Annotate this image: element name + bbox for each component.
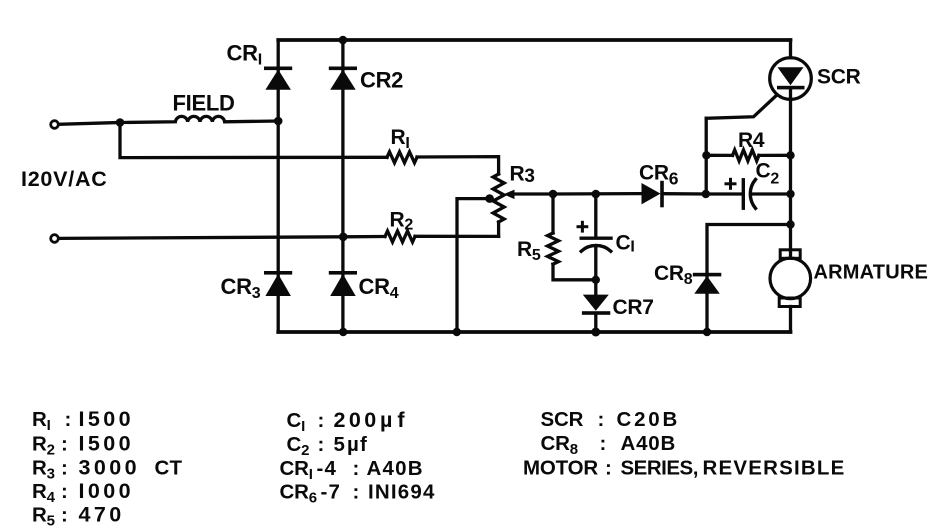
diode CR6 — [642, 181, 664, 208]
node top-rail/CR2 junction — [339, 36, 348, 45]
wire CR1/CR3 vertical — [277, 40, 280, 332]
resistor R2 — [385, 231, 415, 242]
wire wiper line to CR6 — [553, 192, 642, 196]
node B junction FIELD/CR1 — [274, 117, 283, 126]
wire center tap to bottom rail — [457, 199, 490, 332]
terminal bottom AC input — [51, 235, 59, 243]
svg-text:R4: R4 — [738, 129, 765, 152]
motor ARMATURE — [770, 250, 811, 332]
resistor R5 — [548, 194, 596, 280]
resistor R4 — [706, 150, 790, 161]
wire R1 to R3 top — [417, 157, 499, 174]
node A junction — [116, 118, 125, 127]
svg-text:CRI-4:A40B: CRI-4:A40B — [280, 457, 424, 483]
svg-text:FIELD: FIELD — [173, 91, 235, 116]
node cathode/CR8 branch junction — [786, 220, 794, 228]
diode CR1 — [264, 67, 292, 90]
node bottom rail/CR4 — [339, 328, 347, 336]
diode CR8 — [693, 273, 722, 294]
node CR6/C2/gate-branch junction — [702, 190, 710, 198]
wire R1 branch — [120, 123, 387, 158]
svg-text:R5:470: R5:470 — [32, 503, 125, 529]
svg-text:ARMATURE: ARMATURE — [814, 262, 929, 284]
svg-text:CR7: CR7 — [613, 296, 654, 319]
node R4 left junction — [702, 151, 710, 159]
node bottom rail/CR8 — [703, 328, 711, 336]
node R2 wire / CR4 vertical — [339, 233, 348, 242]
wire gate branch vertical — [705, 118, 708, 194]
wire CR6 to C2 node — [664, 192, 706, 196]
capacitor C1 — [581, 194, 611, 280]
wire CR8 branch — [707, 225, 791, 333]
wire CR2/CR4 vertical — [341, 40, 344, 332]
node wiper/C1 junction — [592, 190, 601, 199]
wire top terminal to node A — [59, 123, 120, 125]
svg-text:R3: R3 — [510, 163, 535, 188]
diode CR2 — [329, 67, 357, 90]
wire gate to SCR — [706, 96, 776, 118]
node R4 right junction — [786, 151, 794, 159]
diode CR3 — [264, 271, 292, 296]
resistor R1 — [387, 152, 417, 163]
wiper arrow of R3 — [504, 190, 554, 200]
diode CR4 — [329, 271, 357, 296]
plus sign of C2 — [726, 179, 735, 188]
svg-text:CR2: CR2 — [360, 68, 403, 93]
node bottom rail/center-tap wire — [453, 328, 461, 336]
wire top rail — [278, 38, 790, 42]
node wiper/R5 junction — [549, 190, 558, 199]
capacitor C2 — [706, 180, 791, 209]
SCR U1 — [770, 40, 812, 250]
wire bottom rail — [278, 330, 790, 334]
inductor FIELD — [120, 116, 278, 122]
svg-text:CRI: CRI — [227, 41, 262, 69]
node R3 center tap — [485, 194, 494, 203]
diode CR7 — [582, 280, 610, 332]
terminal top AC input — [51, 121, 59, 129]
svg-text:MOTOR:SERIES,REVERSIBLE: MOTOR:SERIES,REVERSIBLE — [523, 457, 846, 480]
node R5/C1 bottom junction — [592, 276, 600, 284]
resistor R3 potentiometer — [493, 174, 504, 222]
node C2 right junction — [786, 190, 794, 198]
wire R3 bottom — [497, 222, 500, 236]
svg-text:SCR: SCR — [817, 66, 861, 89]
plus sign of C1 — [578, 222, 587, 231]
svg-text:CR6-7:INI694: CR6-7:INI694 — [280, 481, 436, 507]
wire bottom AC to R2 — [59, 237, 385, 239]
wire R2 to R3 bottom — [415, 235, 499, 238]
node bottom rail/CR7 — [591, 328, 600, 337]
svg-text:I20V/AC: I20V/AC — [21, 167, 108, 191]
